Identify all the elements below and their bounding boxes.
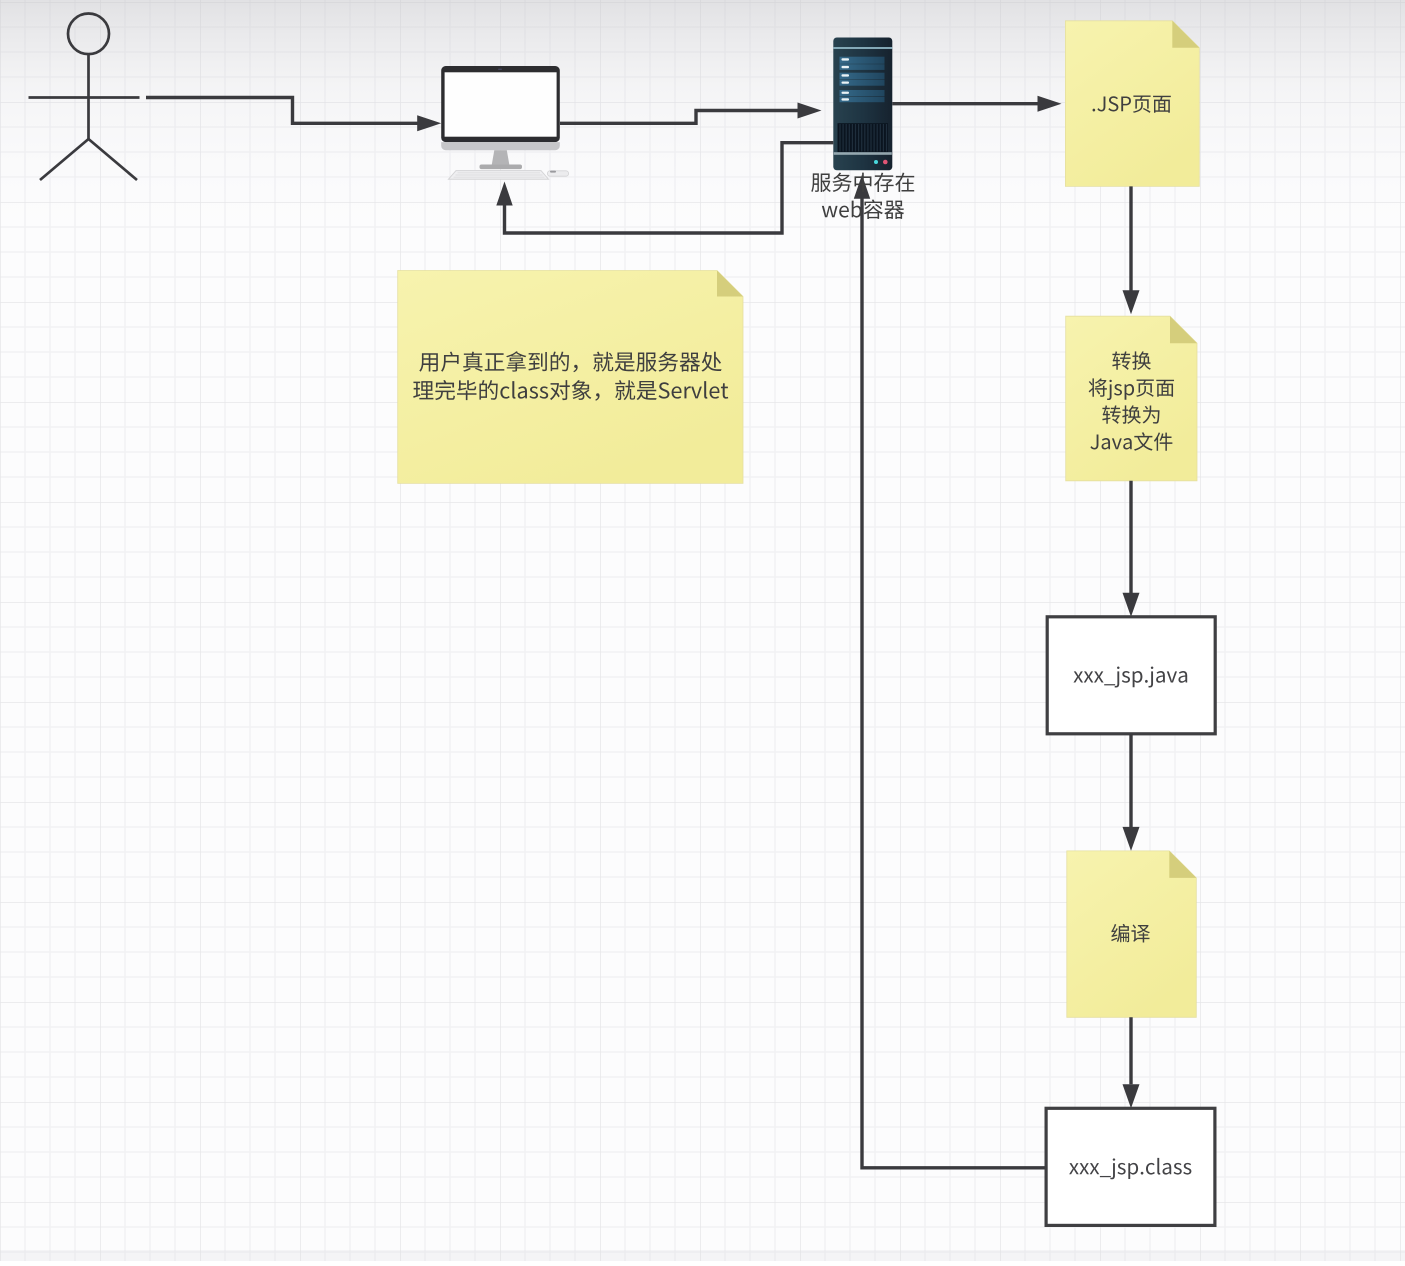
wire JSP note to convert note xyxy=(1129,186,1132,290)
box xxx_jsp.java xyxy=(1047,617,1215,734)
wire server to JSP note xyxy=(892,102,1038,105)
server tower xyxy=(833,38,892,171)
monitor computer xyxy=(441,66,568,179)
note .JSP页面 xyxy=(1065,21,1199,187)
wire monitor to server xyxy=(560,111,798,124)
wire compile note to class box xyxy=(1129,1017,1132,1084)
note 转换 xyxy=(1066,316,1197,481)
wire server return to monitor xyxy=(505,143,834,233)
box xxx_jsp.class xyxy=(1046,1108,1215,1225)
wire class box back to server xyxy=(862,199,1046,1168)
big yellow note xyxy=(398,271,743,484)
top light gradient xyxy=(0,0,1405,255)
wire actor to monitor xyxy=(146,98,418,124)
note 编译 xyxy=(1067,851,1197,1017)
label 服务中存在 web容器 xyxy=(811,173,914,192)
wire convert note to java box xyxy=(1129,481,1132,593)
actor stick figure xyxy=(29,14,140,181)
wire java box to compile note xyxy=(1129,734,1132,827)
